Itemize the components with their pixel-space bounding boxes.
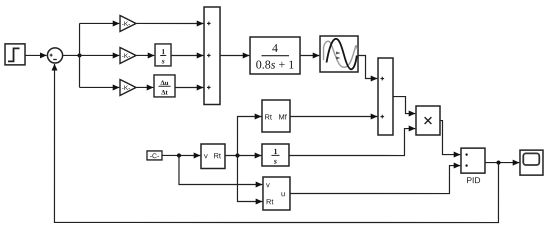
v to Rt block bbox=[201, 144, 225, 169]
wire branch vertical bbox=[79, 23, 81, 87]
wire branch to gain Kp bbox=[80, 22, 120, 24]
derivative block du/dt bbox=[154, 75, 175, 97]
wire integrator to sum3 bbox=[171, 54, 203, 56]
sum3 rectangular sum block bbox=[204, 7, 220, 105]
svg-text:v: v bbox=[204, 151, 208, 160]
integrator2 1/s bbox=[262, 144, 289, 166]
svg-text:Mf: Mf bbox=[278, 113, 287, 122]
wire Rt up to RtMf bbox=[237, 116, 261, 155]
product block x bbox=[416, 106, 440, 135]
svg-text:-K-: -K- bbox=[122, 85, 131, 92]
svg-text:1: 1 bbox=[161, 47, 165, 56]
svg-text:s: s bbox=[273, 157, 277, 166]
wire v down to u-block bbox=[179, 155, 262, 184]
scope block bbox=[520, 150, 543, 175]
integrator 1/s bbox=[155, 44, 171, 66]
node branch bbox=[77, 53, 81, 57]
svg-text:Rt: Rt bbox=[266, 197, 274, 206]
Rt to Mf block bbox=[262, 100, 290, 132]
svg-text:0.8s + 1: 0.8s + 1 bbox=[256, 57, 294, 71]
wire sum to branch node bbox=[63, 54, 79, 56]
wire product to PID bbox=[440, 121, 460, 155]
wire integrator2 to product bbox=[289, 129, 415, 156]
svg-text:4: 4 bbox=[272, 41, 278, 55]
node PID output bbox=[496, 160, 500, 164]
svg-text:Rt: Rt bbox=[213, 151, 221, 160]
wire sum3 to plant bbox=[220, 54, 249, 56]
u computation block bbox=[263, 177, 290, 210]
gain Kd bbox=[120, 79, 136, 95]
wire constant to v2Rt bbox=[162, 154, 200, 156]
wire step to sum bbox=[25, 54, 46, 56]
node Rt bbox=[235, 153, 239, 157]
svg-text:v: v bbox=[266, 180, 270, 189]
wire v2Rt to integrator2 bbox=[225, 154, 261, 156]
gain Ki bbox=[120, 47, 136, 63]
wire branch to gain Ki bbox=[80, 54, 120, 56]
PID controller block bbox=[461, 148, 485, 185]
constant block -C- bbox=[147, 151, 162, 160]
wire PID to scope bbox=[485, 162, 519, 164]
step input block bbox=[5, 44, 25, 65]
wire plant to delay bbox=[300, 55, 319, 57]
svg-text:-C-: -C- bbox=[150, 153, 159, 160]
svg-text:-K-: -K- bbox=[122, 21, 131, 28]
feedback wire to sum bbox=[54, 64, 498, 223]
wire Rt down to u-block bbox=[237, 155, 262, 201]
wire delay to mux2 bbox=[358, 56, 377, 79]
wire Kp to sum3 bbox=[136, 22, 203, 24]
wire u to PID bbox=[290, 166, 460, 194]
wire derivative to sum3 bbox=[175, 86, 203, 88]
wire RtMf to mux2 bbox=[290, 116, 377, 118]
wire Ki to integrator bbox=[136, 54, 154, 56]
wire mux2 to product bbox=[393, 97, 415, 114]
node v bbox=[177, 153, 181, 157]
svg-text:Rt: Rt bbox=[264, 112, 272, 121]
wire branch to gain Kd bbox=[80, 86, 120, 88]
svg-text:1: 1 bbox=[273, 147, 277, 156]
wire Kd to derivative bbox=[136, 86, 153, 88]
transport delay block bbox=[320, 36, 358, 72]
plant transfer fcn 4/(0.8s+1) bbox=[250, 37, 300, 74]
gain Kp bbox=[120, 15, 136, 31]
svg-text:s: s bbox=[161, 56, 165, 65]
mux2 sum block bbox=[378, 58, 393, 135]
svg-text:Δt: Δt bbox=[161, 90, 168, 97]
svg-text:-K-: -K- bbox=[122, 53, 131, 60]
svg-text:PID: PID bbox=[466, 175, 480, 185]
sum junction S1 bbox=[47, 48, 62, 63]
svg-text:u: u bbox=[281, 189, 285, 198]
